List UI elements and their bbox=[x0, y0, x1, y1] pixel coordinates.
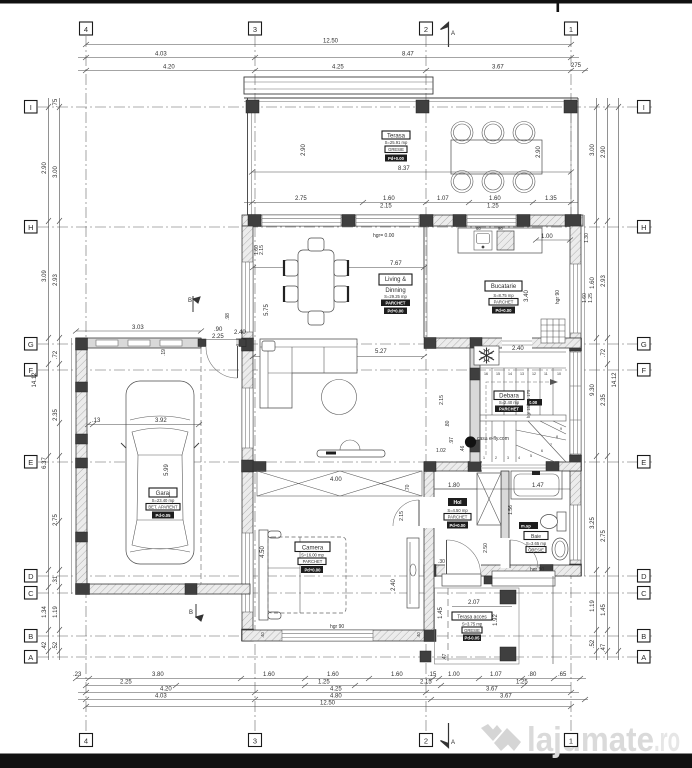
dim line bottom row4 4.03 4.80 3.67 bbox=[78, 699, 588, 701]
wall bottom B camera bbox=[242, 630, 435, 641]
svg-text:2.90: 2.90 bbox=[42, 162, 48, 174]
grid axis row C bbox=[38, 592, 652, 594]
grid axis row H bbox=[38, 226, 652, 228]
living dim 7.67 line bbox=[253, 267, 424, 269]
svg-text:13: 13 bbox=[520, 372, 524, 376]
bed blanket line bbox=[268, 567, 300, 569]
living chair top bbox=[308, 238, 324, 251]
svg-text:2.25: 2.25 bbox=[212, 334, 224, 340]
car hood line bbox=[130, 416, 190, 420]
stair wall block b bbox=[470, 440, 480, 452]
wall D column a bbox=[424, 565, 436, 577]
camera door swing bbox=[393, 500, 419, 526]
dim line left outer bbox=[59, 98, 61, 660]
bubble I right bbox=[638, 101, 651, 114]
svg-text:m.sp: m.sp bbox=[521, 524, 531, 529]
car roof bbox=[137, 455, 183, 520]
camera wardrobe right bbox=[407, 538, 419, 608]
svg-text:4.20: 4.20 bbox=[160, 687, 172, 693]
dims above wall H row1 bbox=[244, 202, 578, 204]
terasa acces outline bbox=[435, 588, 520, 664]
svg-text:1.45: 1.45 bbox=[438, 607, 444, 619]
terasa acces label box bbox=[452, 612, 492, 641]
stair arrow bbox=[486, 382, 556, 455]
svg-text:S=3.75 mp: S=3.75 mp bbox=[462, 622, 483, 627]
stair treads upper run bbox=[480, 368, 566, 415]
terrace left edge bbox=[247, 98, 249, 215]
svg-text:1.19: 1.19 bbox=[53, 606, 59, 618]
terrace dim 8.37 bbox=[252, 171, 571, 173]
svg-text:Living &: Living & bbox=[385, 277, 406, 283]
svg-text:1.47: 1.47 bbox=[532, 483, 544, 489]
garage left wall bbox=[76, 338, 87, 594]
svg-text:casa e-fly.com: casa e-fly.com bbox=[477, 436, 509, 442]
svg-text:.80: .80 bbox=[528, 672, 537, 678]
bubble 2 top bbox=[420, 22, 433, 35]
camera door leaf bbox=[418, 500, 420, 526]
svg-text:GRESIE: GRESIE bbox=[528, 548, 544, 553]
svg-text:G: G bbox=[28, 340, 34, 349]
svg-text:3: 3 bbox=[253, 736, 257, 745]
bottom border tick bbox=[557, 742, 559, 755]
living table bbox=[298, 250, 334, 312]
svg-text:.75: .75 bbox=[53, 98, 59, 107]
svg-text:14: 14 bbox=[508, 372, 512, 376]
svg-text:1.02: 1.02 bbox=[436, 448, 446, 454]
svg-text:3.03: 3.03 bbox=[132, 325, 144, 331]
svg-text:4: 4 bbox=[84, 25, 88, 34]
wall right column G bbox=[570, 338, 582, 351]
svg-text:12.50: 12.50 bbox=[320, 701, 336, 707]
bubble D right bbox=[638, 570, 651, 583]
svg-text:12: 12 bbox=[532, 372, 536, 376]
bubble 4 top bbox=[80, 22, 93, 35]
svg-text:3.67: 3.67 bbox=[486, 687, 498, 693]
wall H column b bbox=[342, 215, 355, 227]
svg-text:B: B bbox=[188, 298, 192, 304]
grid axis row E bbox=[38, 461, 652, 463]
svg-text:3: 3 bbox=[507, 456, 509, 460]
bath door swing bbox=[510, 540, 538, 568]
svg-text:2.07: 2.07 bbox=[468, 600, 480, 606]
svg-text:Pd+0.00: Pd+0.00 bbox=[450, 523, 467, 528]
stair winders bbox=[528, 421, 566, 462]
svg-text:14.12: 14.12 bbox=[32, 372, 38, 388]
svg-text:E: E bbox=[641, 458, 646, 467]
svg-text:2.15: 2.15 bbox=[259, 245, 265, 255]
bathtub bbox=[511, 471, 562, 499]
living chair right 1 bbox=[334, 260, 348, 276]
grid axis row F bbox=[38, 369, 652, 371]
garage door gap bbox=[202, 339, 236, 346]
svg-text:3.09: 3.09 bbox=[42, 270, 48, 282]
svg-text:4.03: 4.03 bbox=[155, 52, 167, 58]
garage top wall fence bbox=[76, 338, 201, 348]
stair landing bbox=[480, 415, 566, 421]
AC closet bbox=[474, 346, 499, 365]
svg-text:9: 9 bbox=[560, 427, 562, 431]
svg-text:A: A bbox=[451, 740, 455, 746]
grid axis row A bbox=[38, 656, 652, 658]
dim line bottom row5 12.50 bbox=[86, 706, 571, 708]
svg-text:8: 8 bbox=[556, 435, 558, 439]
svg-text:S=25.91 mp: S=25.91 mp bbox=[385, 140, 408, 145]
svg-text:PARCHET: PARCHET bbox=[386, 301, 406, 306]
svg-text:3.00: 3.00 bbox=[590, 144, 596, 156]
svg-text:7.67: 7.67 bbox=[390, 261, 402, 267]
svg-text:Pd-0.05: Pd-0.05 bbox=[156, 513, 172, 518]
garage door jamb block bbox=[198, 339, 206, 347]
window top living 2 bbox=[356, 215, 419, 226]
svg-text:15: 15 bbox=[496, 372, 500, 376]
wall row D hol-bath bottom bbox=[424, 565, 581, 576]
svg-text:Hol: Hol bbox=[453, 500, 462, 506]
wall H column e bbox=[517, 215, 530, 227]
svg-text:A: A bbox=[451, 31, 455, 37]
svg-text:.52: .52 bbox=[53, 641, 59, 650]
svg-text:1.60: 1.60 bbox=[263, 672, 275, 678]
svg-text:C: C bbox=[28, 589, 34, 598]
garage roof dashed line bbox=[200, 348, 202, 584]
svg-text:Bucatarie: Bucatarie bbox=[491, 284, 517, 290]
dim line 12.50 top bbox=[86, 44, 571, 46]
section marker A bottom bbox=[441, 723, 449, 748]
garage left column 2 bbox=[76, 382, 88, 392]
garage door swing bbox=[206, 347, 238, 378]
garage label box bbox=[146, 488, 180, 519]
svg-text:F: F bbox=[642, 366, 647, 375]
dim line bottom row1 segments bbox=[76, 678, 586, 680]
svg-text:7: 7 bbox=[550, 443, 552, 447]
svg-text:BET. APARENT: BET. APARENT bbox=[148, 505, 178, 510]
svg-text:.15: .15 bbox=[428, 672, 437, 678]
bath label box bbox=[524, 532, 548, 553]
svg-text:4.00: 4.00 bbox=[330, 477, 342, 483]
living label box bbox=[379, 274, 412, 314]
grid axis row B bbox=[38, 635, 652, 637]
svg-text:6.37: 6.37 bbox=[42, 457, 48, 469]
svg-text:4.50: 4.50 bbox=[260, 546, 266, 558]
svg-text:Terasa: Terasa bbox=[387, 134, 406, 140]
living beam X opening bbox=[257, 471, 422, 496]
wall H column a bbox=[248, 215, 261, 227]
bathtub tap bbox=[532, 471, 540, 475]
stair left wall bbox=[470, 348, 480, 462]
svg-text:C: C bbox=[641, 589, 647, 598]
garage left column 3 bbox=[76, 434, 88, 444]
svg-text:Debara: Debara bbox=[499, 394, 519, 400]
svg-text:PARCHET: PARCHET bbox=[303, 559, 323, 564]
svg-text:Pd+0.00: Pd+0.00 bbox=[388, 156, 405, 161]
bath dim 1.47 bbox=[509, 488, 570, 490]
svg-text:3.00: 3.00 bbox=[53, 166, 59, 178]
wall right bbox=[570, 226, 581, 576]
snowflake symbol bbox=[479, 348, 494, 364]
svg-text:1.30: 1.30 bbox=[584, 233, 590, 243]
wall G column a bbox=[424, 338, 436, 349]
svg-text:2.93: 2.93 bbox=[601, 275, 607, 287]
svg-text:14.12: 14.12 bbox=[612, 372, 618, 388]
hol top dim 1.80/1.47 row bbox=[434, 488, 509, 490]
svg-text:1.60: 1.60 bbox=[391, 672, 403, 678]
svg-text:2.40: 2.40 bbox=[391, 579, 397, 591]
grid axis column 4 bbox=[85, 36, 87, 734]
kitchen stove bbox=[497, 231, 514, 250]
dim line left inner bbox=[48, 98, 50, 660]
svg-text:.31: .31 bbox=[53, 575, 59, 584]
svg-text:4.25: 4.25 bbox=[330, 687, 342, 693]
wall right column E bbox=[570, 455, 582, 471]
hol label box bbox=[444, 498, 471, 529]
terrace pergola band bbox=[244, 77, 433, 94]
svg-text:3.67: 3.67 bbox=[500, 694, 512, 700]
wall G gap bbox=[502, 338, 532, 349]
svg-text:16: 16 bbox=[484, 372, 488, 376]
svg-text:Pd-0.05: Pd-0.05 bbox=[465, 636, 481, 641]
garage door leaf bbox=[237, 346, 239, 378]
terrace column 3 bbox=[246, 100, 259, 113]
wall left bbox=[242, 226, 253, 641]
window right bath bbox=[570, 505, 581, 560]
svg-text:5.75: 5.75 bbox=[264, 304, 270, 316]
garage door dim line 2.25 bbox=[205, 339, 243, 341]
svg-text:B: B bbox=[28, 632, 33, 641]
svg-text:4.80: 4.80 bbox=[330, 694, 342, 700]
debara pd box bbox=[527, 399, 542, 406]
svg-text:12.50: 12.50 bbox=[323, 39, 339, 45]
kitchen dim 1.00 bbox=[536, 239, 570, 241]
stair treads lower run bbox=[480, 421, 566, 462]
svg-text:S=23.40 mp: S=23.40 mp bbox=[152, 498, 175, 503]
svg-text:H: H bbox=[641, 223, 646, 232]
svg-text:1.25: 1.25 bbox=[516, 680, 528, 686]
wall vertical camera-hol bbox=[424, 462, 434, 630]
terasa acces column bottom-right bbox=[500, 647, 516, 661]
terasa acces dim 2.07 bbox=[452, 606, 512, 608]
svg-text:1: 1 bbox=[569, 25, 573, 34]
svg-text:Pd+0.00: Pd+0.00 bbox=[305, 567, 322, 572]
camera label box bbox=[295, 542, 330, 573]
svg-text:1.35: 1.35 bbox=[545, 196, 557, 202]
bubble A right bbox=[638, 651, 651, 664]
pantry cabinet grid bbox=[541, 319, 565, 343]
svg-text:2.15: 2.15 bbox=[420, 680, 432, 686]
wall left column B corner bbox=[242, 629, 254, 641]
svg-text:2.75: 2.75 bbox=[295, 196, 307, 202]
bed outline dashed bbox=[268, 537, 346, 613]
grid axis row I bbox=[38, 106, 652, 108]
svg-text:1.60: 1.60 bbox=[327, 672, 339, 678]
svg-text:I: I bbox=[643, 103, 645, 112]
svg-text:.98: .98 bbox=[225, 313, 231, 320]
bath door gap bbox=[501, 538, 510, 568]
door gap row D entrance bbox=[445, 565, 481, 577]
svg-text:D: D bbox=[641, 572, 647, 581]
svg-text:2.35: 2.35 bbox=[53, 409, 59, 421]
grid axis column 1 bbox=[570, 36, 572, 734]
svg-text:lajumate: lajumate bbox=[527, 721, 654, 759]
svg-text:Pd+0.00: Pd+0.00 bbox=[496, 308, 513, 313]
svg-text:1.07: 1.07 bbox=[490, 672, 502, 678]
svg-text:2.40: 2.40 bbox=[234, 330, 246, 336]
svg-text:Baie: Baie bbox=[531, 534, 541, 540]
svg-text:2.90: 2.90 bbox=[536, 146, 542, 158]
svg-text:hgr 90: hgr 90 bbox=[555, 290, 561, 304]
svg-text:2.75: 2.75 bbox=[601, 530, 607, 542]
svg-text:E: E bbox=[28, 458, 33, 467]
grid axis column 2 bbox=[425, 36, 427, 734]
window right stairs bbox=[570, 352, 581, 454]
small pier block bbox=[484, 576, 492, 584]
svg-text:.72: .72 bbox=[601, 348, 607, 357]
kitchen sink bbox=[474, 231, 492, 250]
garage left column E bbox=[76, 458, 88, 468]
svg-text:2.40: 2.40 bbox=[512, 346, 524, 352]
wall right column D corner bbox=[570, 564, 582, 576]
svg-text:3.40: 3.40 bbox=[524, 290, 530, 302]
svg-text:I: I bbox=[30, 103, 32, 112]
watermark dot bbox=[465, 436, 476, 447]
entrance door leaf bbox=[446, 540, 448, 575]
svg-text:Pd+0.00: Pd+0.00 bbox=[388, 309, 405, 314]
svg-text:1.07: 1.07 bbox=[437, 196, 449, 202]
wall D column b bbox=[540, 565, 553, 577]
svg-text:Garaj: Garaj bbox=[156, 491, 171, 497]
svg-text:D: D bbox=[28, 572, 34, 581]
svg-text:S=8.75 mp: S=8.75 mp bbox=[493, 293, 514, 298]
svg-text:2.90: 2.90 bbox=[601, 146, 607, 158]
dim line right a bbox=[596, 98, 598, 660]
bubble H right bbox=[638, 221, 651, 234]
svg-text:B: B bbox=[641, 632, 646, 641]
svg-text:2.15: 2.15 bbox=[439, 395, 445, 405]
terasa acces step bench bbox=[492, 571, 555, 586]
svg-text:5.99: 5.99 bbox=[164, 464, 170, 476]
svg-text:.72: .72 bbox=[53, 350, 59, 359]
svg-text:60: 60 bbox=[476, 226, 481, 231]
window top kitchen bbox=[467, 215, 516, 226]
bubble E right bbox=[638, 456, 651, 469]
svg-text:.65: .65 bbox=[558, 672, 567, 678]
bubble F left bbox=[25, 364, 38, 377]
svg-text:A: A bbox=[28, 653, 33, 662]
grid axis row G bbox=[38, 343, 652, 345]
bubble 3 top bbox=[249, 22, 262, 35]
svg-text:S=4.50 mp: S=4.50 mp bbox=[447, 508, 468, 513]
stair dim 2.40 bbox=[499, 351, 566, 353]
svg-text:9.30: 9.30 bbox=[590, 384, 596, 396]
hol wardrobe bbox=[477, 473, 501, 525]
svg-text:.23: .23 bbox=[73, 672, 82, 678]
svg-text:1: 1 bbox=[569, 736, 573, 745]
car windshield bbox=[132, 428, 188, 455]
living chair right 2 bbox=[334, 286, 348, 302]
terasa acces column bottom-left bbox=[420, 651, 431, 662]
terasa acces column top-right bbox=[500, 590, 516, 604]
svg-text:2: 2 bbox=[424, 736, 428, 745]
svg-text:.47: .47 bbox=[442, 653, 448, 660]
svg-text:8.47: 8.47 bbox=[402, 52, 414, 58]
dim line bottom row2 bbox=[86, 685, 571, 687]
garage left column top bbox=[76, 338, 88, 350]
svg-text:3.80: 3.80 bbox=[152, 672, 164, 678]
rug circle bbox=[322, 380, 357, 415]
svg-text:2: 2 bbox=[424, 25, 428, 34]
grid axis row D bbox=[38, 575, 652, 577]
bubble C right bbox=[638, 587, 651, 600]
svg-text:1.80: 1.80 bbox=[448, 483, 460, 489]
bubble H left bbox=[25, 221, 38, 234]
svg-text:.42: .42 bbox=[42, 641, 48, 650]
svg-text:hgr= 0.00: hgr= 0.00 bbox=[373, 233, 394, 239]
svg-text:2.93: 2.93 bbox=[53, 274, 59, 286]
svg-text:.30: .30 bbox=[438, 559, 445, 565]
svg-text:2.25: 2.25 bbox=[120, 680, 132, 686]
tv bench bbox=[317, 450, 385, 457]
bubble 4 bottom bbox=[80, 734, 93, 747]
svg-text:90: 90 bbox=[498, 226, 503, 231]
grid axis column 3 bbox=[254, 36, 256, 734]
svg-text:Terasa acces: Terasa acces bbox=[457, 615, 487, 621]
window right kitchen bbox=[570, 264, 581, 333]
dim total 14.12 right bbox=[618, 98, 620, 660]
svg-text:1.60: 1.60 bbox=[489, 196, 501, 202]
garage dim 3.03 bbox=[76, 330, 201, 332]
terrace column 2 bbox=[416, 100, 429, 113]
window left camera bbox=[242, 533, 253, 612]
svg-text:2: 2 bbox=[495, 456, 497, 460]
svg-text:1: 1 bbox=[483, 456, 485, 460]
svg-text:1.60: 1.60 bbox=[383, 196, 395, 202]
svg-text:1.25: 1.25 bbox=[318, 680, 330, 686]
svg-text:3: 3 bbox=[253, 25, 257, 34]
bubble C left bbox=[25, 587, 38, 600]
wall H column d bbox=[453, 215, 466, 227]
svg-text:4.25: 4.25 bbox=[332, 65, 344, 71]
row E column c bbox=[546, 462, 559, 472]
svg-text:10: 10 bbox=[557, 372, 561, 376]
svg-text:1.19: 1.19 bbox=[590, 600, 596, 612]
svg-text:.97: .97 bbox=[449, 437, 455, 444]
terrace top edge bbox=[244, 97, 578, 99]
svg-text:.80: .80 bbox=[445, 420, 451, 427]
top border tick bbox=[557, 0, 560, 12]
svg-text:1.00: 1.00 bbox=[448, 672, 460, 678]
svg-text:1.60: 1.60 bbox=[590, 277, 596, 289]
svg-text:A: A bbox=[641, 653, 646, 662]
svg-text:.47: .47 bbox=[601, 643, 607, 652]
car trunk line bbox=[130, 549, 190, 553]
svg-text:6: 6 bbox=[541, 449, 543, 453]
wall row E band bbox=[434, 462, 581, 471]
kitchen-living partition bbox=[423, 226, 425, 338]
dim line right b bbox=[607, 98, 609, 660]
svg-text:hgr 15/hp= 175: hgr 15/hp= 175 bbox=[526, 389, 531, 418]
wall left column G bbox=[242, 338, 254, 351]
wall H column c bbox=[420, 215, 433, 227]
svg-text:.40: .40 bbox=[260, 632, 265, 638]
section marker A top bbox=[441, 23, 449, 48]
svg-text:.46: .46 bbox=[460, 445, 466, 452]
washing machine label bbox=[519, 522, 538, 529]
svg-text:S=2.40 mp: S=2.40 mp bbox=[499, 400, 520, 405]
garage left column 4 bbox=[76, 532, 88, 542]
svg-text:Camera: Camera bbox=[302, 546, 324, 552]
right facade offset line bbox=[584, 215, 586, 576]
bubble 1 bottom bbox=[565, 734, 578, 747]
row E column a bbox=[424, 462, 436, 472]
garage bottom wall bbox=[76, 584, 250, 594]
